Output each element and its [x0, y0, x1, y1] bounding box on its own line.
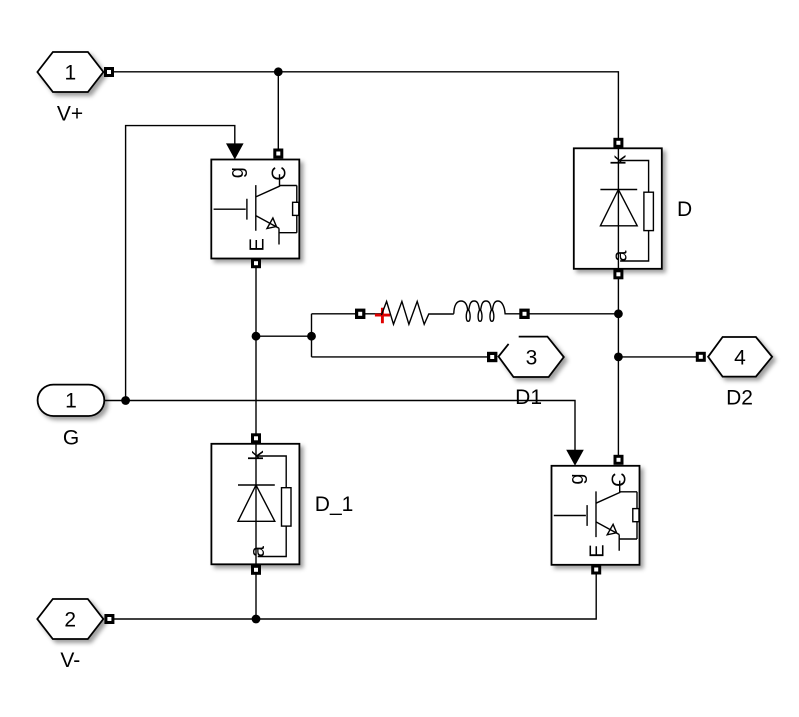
- diode D block: [574, 138, 692, 279]
- IGBT U1 gate arrow: [226, 143, 244, 159]
- port 3 square: [487, 352, 497, 362]
- wire to port 3: [312, 356, 493, 358]
- node junction emitter: [252, 332, 261, 341]
- wire IGBT1 emitter to D_1 anode: [255, 263, 257, 438]
- RL branch left port square: [355, 309, 365, 319]
- diode D triangle: [600, 190, 637, 226]
- node junction RL node: [307, 332, 316, 341]
- wire branch emitter to RL node: [256, 335, 312, 337]
- IGBT U1 port C square: [273, 149, 283, 159]
- svg-text:1: 1: [65, 62, 77, 85]
- svg-text:a: a: [247, 545, 269, 557]
- wire RL input stub: [365, 313, 382, 315]
- wire D_1 cathode to bottom rail: [255, 574, 257, 619]
- svg-text:V-: V-: [60, 649, 80, 672]
- node junction right rail port4: [614, 353, 623, 362]
- IGBT U1 block: [211, 143, 299, 268]
- IGBT U1 port E square: [251, 258, 261, 268]
- svg-text:D1: D1: [515, 386, 542, 409]
- svg-text:D2: D2: [726, 386, 753, 409]
- wire RL output to right rail: [525, 313, 618, 315]
- diode D box: [574, 148, 662, 268]
- diode D_1 port bottom square: [251, 565, 261, 575]
- IGBT U2 internal resistor: [633, 509, 639, 522]
- wire right rail D cathode to IGBT2 collector: [617, 274, 619, 456]
- diode D_1 snubber resistor: [282, 488, 292, 526]
- svg-text:4: 4: [734, 346, 746, 369]
- diode D_1 snubber loop: [257, 456, 286, 557]
- resistor R zigzag: [381, 301, 453, 324]
- IGBT U1 emitter path: [256, 215, 297, 244]
- IGBT U2 port C square: [614, 455, 624, 465]
- diode D_1 cathode bar: [238, 484, 275, 486]
- diode D cathode bar: [600, 189, 637, 191]
- port V+ hexagon 1: [37, 52, 103, 92]
- svg-text:g: g: [566, 473, 588, 484]
- IGBT U1 collector path: [256, 174, 297, 202]
- svg-text:a: a: [609, 250, 631, 262]
- wire RL node vertical: [311, 314, 313, 357]
- diode D_1 block: [211, 433, 353, 575]
- diode D_1 box: [211, 444, 299, 565]
- node junction G: [121, 396, 130, 405]
- svg-text:C: C: [269, 166, 291, 180]
- inductor L coils: [454, 301, 520, 321]
- diode D center lead: [617, 148, 619, 268]
- IGBT U1 internal resistor: [293, 202, 299, 215]
- port 4 square: [696, 352, 706, 362]
- IGBT U2 block: [552, 450, 640, 575]
- node junction bottom rail: [252, 615, 261, 624]
- wire gate branch to IGBT1: [126, 126, 235, 401]
- RL branch right port square: [519, 309, 529, 319]
- port 3 hexagon with chevron: [499, 337, 564, 377]
- svg-text:G: G: [63, 427, 79, 450]
- svg-text:1: 1: [65, 390, 77, 413]
- diode D_1 center lead: [255, 444, 257, 565]
- IGBT U2 emitter path: [596, 522, 637, 551]
- svg-text:E: E: [587, 544, 609, 557]
- IGBT U1 emitter arrow triangle: [267, 218, 276, 229]
- diode D_1 triangle: [238, 485, 275, 521]
- wire IGBT1 collector drop: [277, 72, 279, 154]
- svg-text:V+: V+: [57, 102, 83, 125]
- IGBT U1 box: [211, 160, 299, 259]
- port V+ square: [104, 67, 114, 77]
- wire bottom rail: [109, 574, 596, 619]
- wire to RL branch input: [312, 313, 361, 315]
- svg-text:3: 3: [526, 346, 538, 369]
- diode D port top square: [613, 138, 623, 148]
- port G stadium 1: [38, 385, 105, 416]
- IGBT U1 gate lead: [214, 185, 256, 231]
- svg-text:k: k: [246, 450, 268, 461]
- IGBT U2 box: [552, 466, 640, 565]
- wire G horizontal to IGBT2 gate: [104, 401, 575, 451]
- svg-text:E: E: [246, 238, 268, 251]
- node junction right rail RL: [614, 309, 623, 318]
- IGBT U2 gate lead: [554, 491, 596, 537]
- svg-text:D_1: D_1: [315, 493, 354, 516]
- node junction top rail: [274, 67, 283, 76]
- svg-text:C: C: [609, 472, 631, 486]
- diode D port bottom square: [613, 269, 623, 279]
- port V- hexagon 2: [37, 599, 103, 639]
- diode D snubber loop: [620, 161, 649, 262]
- diode D_1 port top square: [251, 433, 261, 443]
- port 4 hexagon D2: [708, 337, 772, 377]
- wire to port 4: [618, 356, 700, 358]
- diode D snubber resistor: [644, 192, 654, 230]
- IGBT U2 port E square: [591, 565, 601, 575]
- svg-text:g: g: [226, 167, 248, 178]
- port V- square: [104, 614, 114, 624]
- IGBT U2 gate arrow: [566, 450, 584, 466]
- IGBT U2 collector path: [596, 481, 637, 509]
- IGBT U2 emitter arrow triangle: [607, 524, 616, 535]
- svg-text:D: D: [677, 198, 692, 221]
- svg-text:k: k: [608, 154, 630, 165]
- resistor R red plus: [375, 308, 390, 323]
- wire top rail from V+ to diode D: [108, 72, 618, 143]
- svg-text:2: 2: [64, 609, 76, 632]
